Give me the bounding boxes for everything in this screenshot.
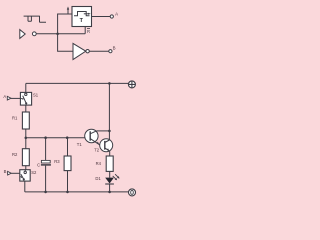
S1 top contact xyxy=(25,92,27,93)
wire input to junction xyxy=(36,33,57,35)
switch S1 box xyxy=(20,92,31,105)
S1 lever xyxy=(23,96,27,104)
branch wire node1 to T1 base xyxy=(26,137,85,139)
wire T1 collector to node xyxy=(96,130,109,132)
node rail to transistor drop xyxy=(108,82,111,85)
wire T1 emitter to T2 base xyxy=(100,144,104,146)
wire R3 tap down xyxy=(67,138,69,156)
input terminal arrow xyxy=(20,30,25,39)
resistor R2 xyxy=(22,149,29,166)
node R3 on bottom rail xyxy=(66,191,69,194)
wire S2 to bottom rail xyxy=(24,181,26,192)
S1 bottom contact dot xyxy=(25,102,27,104)
wire T2 collector up xyxy=(108,131,110,140)
resistor R4 xyxy=(106,156,113,171)
S2 top contact xyxy=(24,170,26,172)
svg-text:R: R xyxy=(87,29,90,34)
pulse duration arrow xyxy=(84,13,89,15)
svg-text:C: C xyxy=(37,162,40,167)
wire junction up to monostable input xyxy=(58,14,72,34)
top supply rail xyxy=(26,82,129,84)
node collectors xyxy=(108,130,111,133)
svg-text:S1: S1 xyxy=(33,93,39,98)
terminal B circle xyxy=(109,50,112,53)
S2 control arrow xyxy=(20,176,21,178)
S2 bottom contact dot xyxy=(23,178,25,180)
LED D1 xyxy=(105,178,114,184)
wire R3 to bottom rail xyxy=(67,171,69,192)
wire inverter to terminal B xyxy=(89,50,109,52)
bottom rail xyxy=(25,191,129,193)
node cap tap xyxy=(44,136,47,139)
wire A to S1 xyxy=(11,97,20,99)
node R3 tap xyxy=(66,136,69,139)
wire T2 emitter down to R4 xyxy=(109,151,111,156)
plus supply terminal xyxy=(128,81,135,88)
square-wave input signal glyph xyxy=(24,16,46,23)
svg-text:S2: S2 xyxy=(31,170,37,175)
node junction input xyxy=(56,33,59,36)
trigger edge arrow xyxy=(67,9,69,14)
svg-text:B: B xyxy=(113,46,116,51)
svg-text:A: A xyxy=(115,12,118,17)
switch S2 box xyxy=(20,170,30,181)
wire R4 to D1 xyxy=(109,171,111,177)
S2 lever xyxy=(21,174,24,179)
node1 (RC node) xyxy=(25,137,28,140)
capacitor C top plate xyxy=(41,160,50,163)
wire node1 down to R2 xyxy=(25,138,27,149)
svg-text:D1: D1 xyxy=(95,176,101,181)
wire cap tap down to C xyxy=(45,138,47,161)
transistor T2 xyxy=(100,139,113,152)
svg-text:R1: R1 xyxy=(12,115,18,120)
svg-text:R4: R4 xyxy=(96,161,102,166)
transistor T1 xyxy=(85,129,100,145)
wire junction down to inverter xyxy=(58,34,73,51)
node D1 on bottom rail xyxy=(108,191,111,194)
svg-text:T1: T1 xyxy=(77,142,83,147)
inverter U2 xyxy=(73,43,86,59)
wire junction to reset pin riser xyxy=(58,27,86,34)
resistor R1 xyxy=(22,112,29,129)
wire R2 to S2 xyxy=(25,166,27,170)
wire S1 to R1 xyxy=(25,105,27,112)
wire C to bottom rail xyxy=(45,166,47,192)
svg-text:R2: R2 xyxy=(12,152,18,157)
node C on bottom rail xyxy=(44,191,47,194)
wire monostable output to terminal A xyxy=(92,16,111,18)
wire D1 to bottom rail xyxy=(109,184,111,192)
minus supply terminal xyxy=(129,189,136,196)
resistor R3 xyxy=(64,156,71,171)
svg-text:R3: R3 xyxy=(54,159,60,164)
capacitor C bottom plate xyxy=(41,164,51,166)
wire rail down to S1 xyxy=(25,83,27,92)
svg-text:T2: T2 xyxy=(94,148,100,153)
input terminal circle xyxy=(32,32,36,36)
LED D1 light arrows xyxy=(113,174,119,179)
terminal A arrow xyxy=(7,96,11,100)
monostable pulse symbol xyxy=(74,12,90,16)
svg-text:B: B xyxy=(4,169,7,174)
wire R1 to node1 xyxy=(25,129,27,138)
terminal B arrow xyxy=(8,171,12,175)
svg-text:A: A xyxy=(3,94,6,99)
monostable U1 box xyxy=(72,7,92,27)
wire supply drop xyxy=(108,83,110,130)
terminal A circle xyxy=(110,15,113,18)
wire B to S2 xyxy=(11,172,20,174)
S1 control arrow xyxy=(20,98,22,100)
